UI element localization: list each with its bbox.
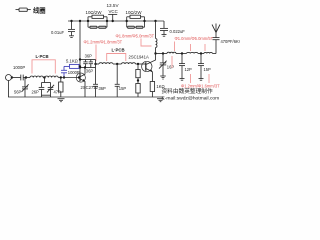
svg-text:资料由魏英整理制作: 资料由魏英整理制作 [162, 87, 213, 95]
trimmer capacitor 56P [22, 78, 29, 98]
capacitor 470PF/6KV [213, 38, 220, 54]
svg-text:L·PCB: L·PCB [112, 48, 125, 53]
junction dots loop [79, 58, 81, 60]
wire choke to collector node [155, 48, 157, 54]
svg-text:L·PCB: L·PCB [36, 54, 49, 59]
svg-text:线圈: 线圈 [33, 5, 46, 14]
capacitor 36P to ground [93, 68, 98, 98]
oscillator feedback loop rails [80, 60, 96, 68]
svg-text:36P: 36P [99, 86, 107, 91]
svg-text:15P: 15P [119, 86, 127, 91]
junction dots R1 [87, 20, 89, 22]
junction dot bias [137, 79, 139, 81]
transistor Q2 2SC1941 [142, 54, 156, 82]
wire input shield to ground [8, 81, 10, 98]
svg-text:5.1KΩ: 5.1KΩ [66, 59, 78, 64]
inductor L choke vertical [156, 39, 158, 48]
junction dots on output wire [154, 52, 156, 54]
svg-text:2SC1941A: 2SC1941A [129, 55, 149, 60]
inductor output L2 humps [187, 52, 198, 53]
inductor PCB L humps b [122, 63, 136, 64]
inductor output L3 humps [204, 52, 212, 53]
red leaders label 4 [190, 74, 192, 83]
ground bus [8, 96, 163, 98]
red bracket left [32, 60, 55, 74]
capacitor 1000P (blue) [61, 66, 67, 77]
junction dot collector/loop [84, 66, 86, 68]
legend coil symbol [16, 8, 31, 12]
svg-text:10Ω/2W: 10Ω/2W [86, 10, 103, 15]
svg-text:Φ1.0mm/Φ5.0mm/5T: Φ1.0mm/Φ5.0mm/5T [175, 36, 214, 41]
junction dot blue cap/wire [63, 76, 65, 78]
capacitor 36P feedback b [89, 60, 93, 68]
svg-text:2SC2712: 2SC2712 [81, 85, 99, 90]
wire column from bus to oscillator [79, 21, 81, 74]
capacitor 15P to ground [115, 64, 120, 97]
trimmer arrow 47P [47, 85, 54, 93]
junction dot base 2SC2712 [78, 76, 80, 78]
inductor output L1 humps [167, 52, 176, 53]
junction dots base wire [94, 63, 96, 65]
junction dot after input cap [25, 76, 27, 78]
svg-text:36P: 36P [86, 68, 94, 73]
junction dot input [11, 76, 13, 78]
inductor PCB L humps a [99, 63, 113, 64]
trimmer capacitor 16P [159, 54, 167, 76]
capacitor 15P branch [198, 54, 204, 81]
svg-text:0.01uF: 0.01uF [51, 30, 64, 35]
junction dot 5.1K/column [79, 65, 81, 67]
wire 1K to ground [151, 92, 153, 98]
red leader label 1 [95, 45, 97, 62]
parallel 26P / 47P branch [39, 78, 54, 98]
svg-text:E-mail:swdz@hotmail.com: E-mail:swdz@hotmail.com [162, 95, 220, 101]
parallel resistor pair below R2 [127, 26, 145, 29]
resistor input bias [59, 78, 63, 98]
resistor 5.1K (blue) [64, 64, 80, 68]
antenna [212, 24, 220, 38]
parallel resistor pair below R1 [88, 26, 107, 29]
svg-text:Φ1.8mm/Φ5.0mm/3T: Φ1.8mm/Φ5.0mm/3T [116, 33, 155, 38]
junction dot [79, 20, 81, 22]
input connector [6, 75, 12, 81]
capacitor 0.022uF [160, 28, 168, 34]
transistor Q1 2SC2712 [76, 68, 85, 98]
resistor 1K emitter [150, 82, 154, 92]
VCC rail symbol [108, 14, 117, 21]
junction dot VCC [112, 20, 114, 22]
svg-text:36P: 36P [85, 54, 93, 59]
capacitor 36P feedback a [83, 60, 87, 68]
red leader label 2 [141, 39, 152, 47]
junction dot resistor [60, 76, 62, 78]
svg-text:15P: 15P [204, 67, 212, 72]
ground for 16P [160, 76, 166, 79]
resistor R2 10ohm/2W [127, 15, 145, 27]
ground for 0.01uF [69, 36, 74, 38]
red bracket mid [107, 54, 126, 62]
wire bus end down [163, 21, 165, 28]
resistor R1 10ohm/2W [88, 15, 107, 27]
junction dot mid filter [43, 76, 45, 78]
svg-text:10Ω/2W: 10Ω/2W [126, 10, 143, 15]
svg-text:16P: 16P [167, 64, 175, 69]
svg-text:1000P: 1000P [13, 65, 25, 70]
red leader 16P area [171, 56, 173, 68]
junction dots R2 [126, 20, 128, 22]
capacitor 12P branch [179, 54, 185, 81]
wire collector node to antenna [156, 52, 217, 53]
junction dot collector feed [154, 20, 156, 22]
svg-text:470PF/6KV: 470PF/6KV [221, 39, 241, 44]
bias resistor lower [136, 84, 140, 98]
inductor PCB input a [26, 76, 45, 78]
svg-text:13.5V: 13.5V [107, 3, 120, 8]
svg-text:12P: 12P [185, 67, 193, 72]
wire base feed 2SC1941 [96, 63, 146, 64]
ground symbol right [157, 99, 164, 102]
svg-text:0.022uF: 0.022uF [170, 29, 186, 34]
svg-text:26P: 26P [32, 90, 40, 95]
VCC bus wire [68, 20, 164, 22]
inductor PCB input b [45, 76, 80, 78]
wire bus down to choke [155, 21, 157, 39]
capacitor 1000P input [21, 75, 27, 81]
bias resistor upper [136, 64, 140, 84]
svg-text:Φ1.2mm/Φ1.8mm/3T: Φ1.2mm/Φ1.8mm/3T [84, 39, 123, 44]
ground symbol left [58, 99, 65, 102]
svg-text:56P: 56P [14, 90, 22, 95]
svg-text:VCC: VCC [109, 9, 118, 14]
junction dot bus/cap [70, 20, 72, 22]
wire input [12, 77, 21, 79]
red leaders label 3 [174, 42, 176, 52]
capacitor C3 0.01uF [68, 21, 75, 36]
ground for 0.022uF [162, 35, 167, 37]
